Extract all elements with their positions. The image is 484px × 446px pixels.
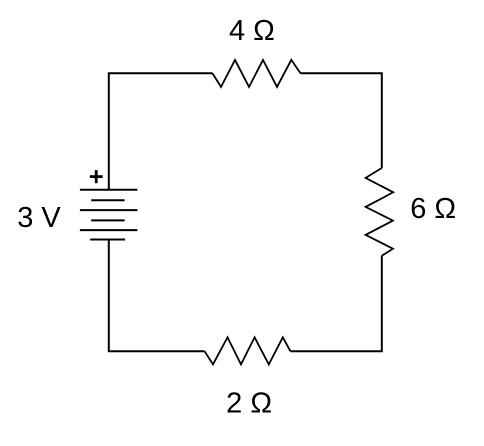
resistor R2 6 ohm (right) [366, 168, 394, 256]
wire: top-right segment with top-right corner to right resistor [301, 73, 382, 168]
svg-text:4 Ω: 4 Ω [229, 15, 275, 47]
battery plate long [80, 229, 137, 231]
wire: left-top segment with top-left corner to top resistor [109, 73, 213, 190]
battery positive terminal plus sign [90, 170, 103, 183]
battery plate short [91, 219, 124, 221]
wire: right-bottom segment with bottom-right corner to bottom resistor [290, 256, 381, 351]
resistor R3 2 ohm (bottom) [205, 337, 291, 364]
svg-text:2 Ω: 2 Ω [226, 388, 272, 420]
battery plate short (negative) [91, 199, 124, 201]
svg-text:3 V: 3 V [17, 202, 61, 234]
svg-text:6 Ω: 6 Ω [410, 193, 456, 225]
battery plate short (negative, bottom) [90, 239, 125, 241]
battery plate long (positive, top) [80, 189, 137, 191]
battery B1 3 V [80, 190, 137, 240]
wire: bottom-left segment with bottom-left corner up to battery bottom [109, 240, 205, 352]
battery plate long [80, 209, 137, 211]
resistor R1 4 ohm (top) [213, 60, 301, 87]
